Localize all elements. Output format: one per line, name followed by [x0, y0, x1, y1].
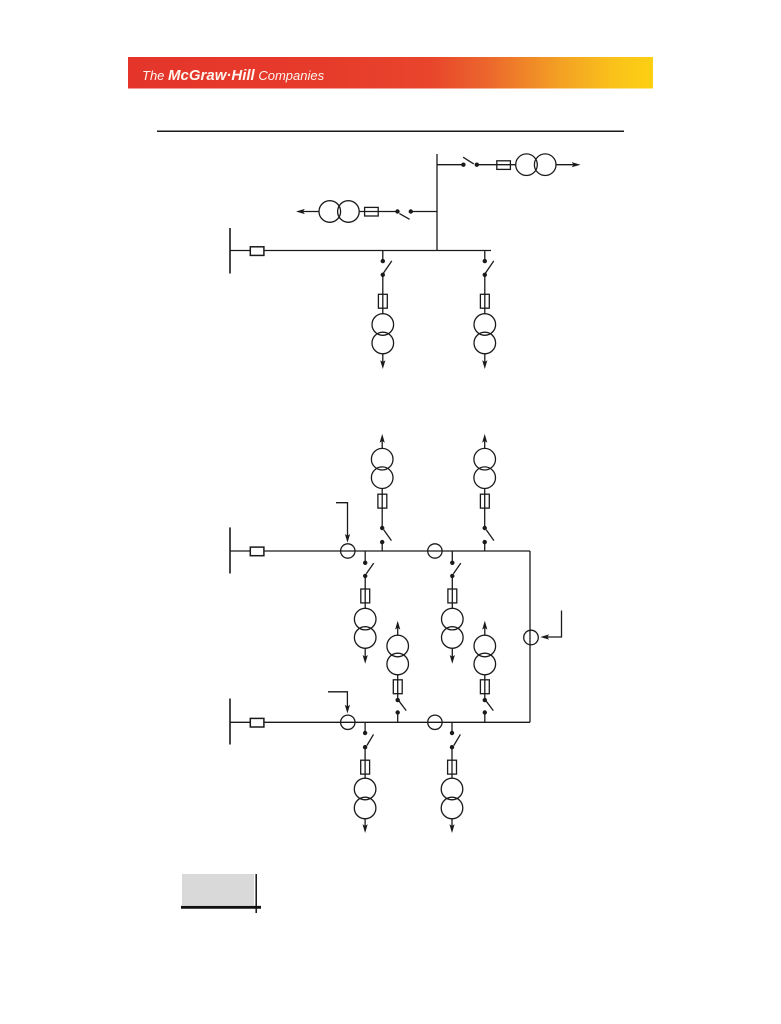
svg-text:The McGraw·Hill Companies: The McGraw·Hill Companies: [142, 67, 325, 84]
